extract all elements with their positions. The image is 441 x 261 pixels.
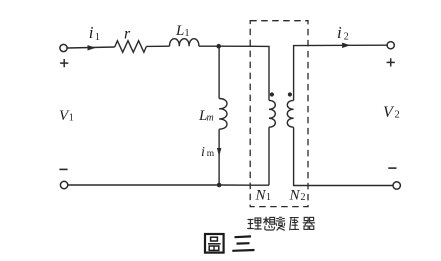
label V1 — [59, 108, 74, 124]
label N2 — [289, 188, 306, 204]
wire resistor to L1 — [146, 45, 169, 47]
polarity dot secondary — [288, 92, 292, 96]
minus sign V2 — [388, 167, 396, 169]
primary bottom lead — [268, 127, 270, 185]
char LI (reason) — [248, 218, 262, 229]
caption figure three (CJK drawn strokes) — [205, 234, 255, 253]
svg-text:V: V — [383, 104, 395, 121]
plus sign V2 — [387, 58, 395, 66]
arrow im — [217, 148, 222, 156]
label V2 — [383, 104, 400, 121]
terminal T3 top-right — [387, 42, 394, 49]
char BIAN (change) — [276, 217, 285, 230]
svg-text:N: N — [255, 188, 267, 204]
svg-text:1: 1 — [95, 32, 100, 43]
plus sign V1 — [60, 59, 68, 67]
dashed box ideal transformer — [250, 21, 308, 207]
svg-text:2: 2 — [301, 192, 306, 203]
char XIANG (think) — [264, 217, 275, 230]
terminal T4 bottom-right — [393, 182, 400, 189]
terminal T1 top-left — [60, 44, 67, 51]
inductor Lm — [219, 99, 227, 130]
node B junction dot — [217, 183, 222, 188]
wire L1 to node A — [199, 45, 219, 47]
minus sign V1 — [59, 168, 67, 170]
inductor L1 — [170, 39, 199, 47]
wire node A to primary top — [219, 46, 269, 100]
label r — [124, 26, 131, 43]
arrow i1 — [88, 45, 96, 50]
label i1 — [89, 23, 100, 43]
svg-text:2: 2 — [344, 32, 349, 43]
svg-text:m: m — [207, 149, 215, 159]
label im — [201, 145, 215, 160]
svg-text:m: m — [207, 113, 214, 124]
svg-text:1: 1 — [266, 192, 271, 203]
svg-text:N: N — [289, 188, 301, 204]
terminal T2 bottom-left — [60, 181, 67, 188]
char YA (pressure) — [290, 218, 299, 230]
bottom rail left — [68, 184, 269, 186]
svg-text:1: 1 — [69, 113, 74, 124]
polarity dot primary — [270, 92, 274, 96]
svg-text:2: 2 — [395, 110, 400, 121]
svg-text:i: i — [337, 23, 342, 42]
svg-text:L: L — [175, 23, 184, 39]
wire Lm branch upper — [218, 46, 220, 98]
label L1 — [175, 23, 190, 39]
svg-text:i: i — [201, 145, 205, 160]
secondary bottom lead — [294, 127, 393, 185]
svg-text:1: 1 — [185, 28, 190, 39]
secondary top lead — [294, 45, 387, 100]
caption ideal transformer (CJK drawn strokes) — [248, 217, 315, 230]
svg-text:r: r — [124, 26, 131, 43]
char QI (device) — [303, 217, 314, 229]
char SAN (three) — [232, 236, 254, 250]
arrow i2 — [342, 43, 350, 48]
node A junction dot — [216, 44, 221, 49]
resistor r — [115, 41, 147, 53]
transformer primary coil — [269, 100, 275, 127]
transformer secondary coil — [287, 100, 293, 127]
wire top-left: terminal to resistor — [67, 47, 114, 48]
label N1 — [255, 188, 272, 204]
label i2 — [337, 23, 349, 43]
wire Lm branch lower — [218, 129, 220, 185]
label Lm — [198, 108, 214, 124]
svg-text:i: i — [89, 23, 94, 42]
char TU (figure) — [205, 234, 224, 253]
